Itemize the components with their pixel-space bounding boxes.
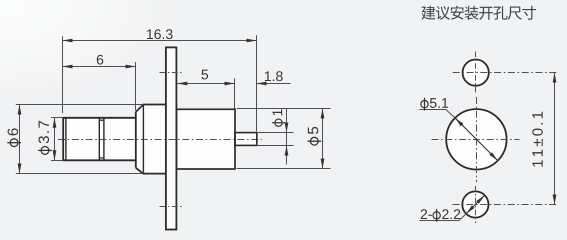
dim phi1 line <box>286 109 288 165</box>
dim 1.8 line <box>257 83 291 85</box>
dim phi1 extension top <box>257 132 294 134</box>
phi5.1 diameter arrow <box>455 118 498 161</box>
dim 16.3 text <box>147 29 173 39</box>
dim 5 line <box>177 83 234 85</box>
groove left edge <box>98 118 100 161</box>
flange plate <box>166 47 177 229</box>
dim 6 extension right <box>135 62 137 111</box>
bottom hole centerline vertical <box>475 186 477 223</box>
2-phi2.2 label <box>421 209 461 222</box>
top hole centerline vertical <box>475 52 477 94</box>
phi5.1 label <box>421 98 448 111</box>
top hole centerline horizontal <box>453 72 557 74</box>
terminal pin <box>235 133 257 146</box>
dim 6 line <box>63 66 136 68</box>
dim 16.3 extension right <box>256 35 258 131</box>
dim 1.8 text <box>265 71 283 81</box>
centerline axis <box>58 139 262 141</box>
2-phi2.2 diameter arrow <box>466 195 485 214</box>
groove bottom <box>99 157 104 159</box>
dim 5 text <box>201 70 208 80</box>
dim 11 text <box>532 112 543 167</box>
big hole centerline vertical <box>476 97 478 182</box>
dim phi1 extension bottom <box>257 145 294 147</box>
barrel outer bottom <box>63 159 136 161</box>
dim phi6 extension top <box>16 104 144 106</box>
connector body fill <box>63 47 257 229</box>
phi5.1 leader diagonal <box>446 110 455 118</box>
dim phi3.7 extension bottom <box>51 160 63 162</box>
title 建议安装开孔尺寸 <box>421 6 536 20</box>
dim phi5 extension bottom <box>237 168 331 170</box>
dim phi5 extension top <box>237 108 331 110</box>
dim phi3.7 line <box>54 118 56 161</box>
dim phi5 line <box>322 109 324 169</box>
phi5.1 leader underline <box>419 109 446 111</box>
groove right edge <box>103 118 105 161</box>
cone base edge <box>135 112 137 168</box>
dim phi6 extension bottom <box>16 173 144 175</box>
top mounting hole circle <box>463 60 489 86</box>
dim 6 text <box>97 55 103 65</box>
phi6 cylinder top <box>143 104 166 106</box>
dim 16.3 extension left <box>62 36 64 113</box>
front face <box>62 117 64 161</box>
dim 16.3 line <box>63 40 257 42</box>
flange lower hole centerline <box>160 206 183 208</box>
dim phi1 text <box>272 109 285 126</box>
dim phi3.7 extension top <box>51 117 63 119</box>
bottom hole centerline horizontal <box>453 204 557 206</box>
2-phi2.2 leader diagonal <box>459 214 466 221</box>
cone chamfer top <box>136 105 144 112</box>
barrel outer top <box>63 117 136 119</box>
dim 5 extension right <box>234 78 236 108</box>
front chamfer ring <box>65 118 67 161</box>
phi6 cylinder bottom <box>143 173 166 175</box>
dim 11 line <box>554 73 556 205</box>
bottom mounting hole circle <box>462 191 488 217</box>
flange upper hole centerline <box>160 72 183 74</box>
big hole centerline horizontal <box>432 139 520 141</box>
dim phi6 line <box>19 105 21 174</box>
big hole circle phi5.1 <box>446 109 506 169</box>
2-phi2.2 leader underline <box>419 220 459 222</box>
dim phi3.7 text <box>38 121 52 154</box>
dim phi6 text <box>7 128 21 146</box>
cone top edge <box>142 105 144 174</box>
groove top <box>99 119 104 121</box>
dim phi5 text <box>307 127 321 145</box>
rear body <box>176 109 235 169</box>
cone chamfer bottom <box>136 168 143 174</box>
